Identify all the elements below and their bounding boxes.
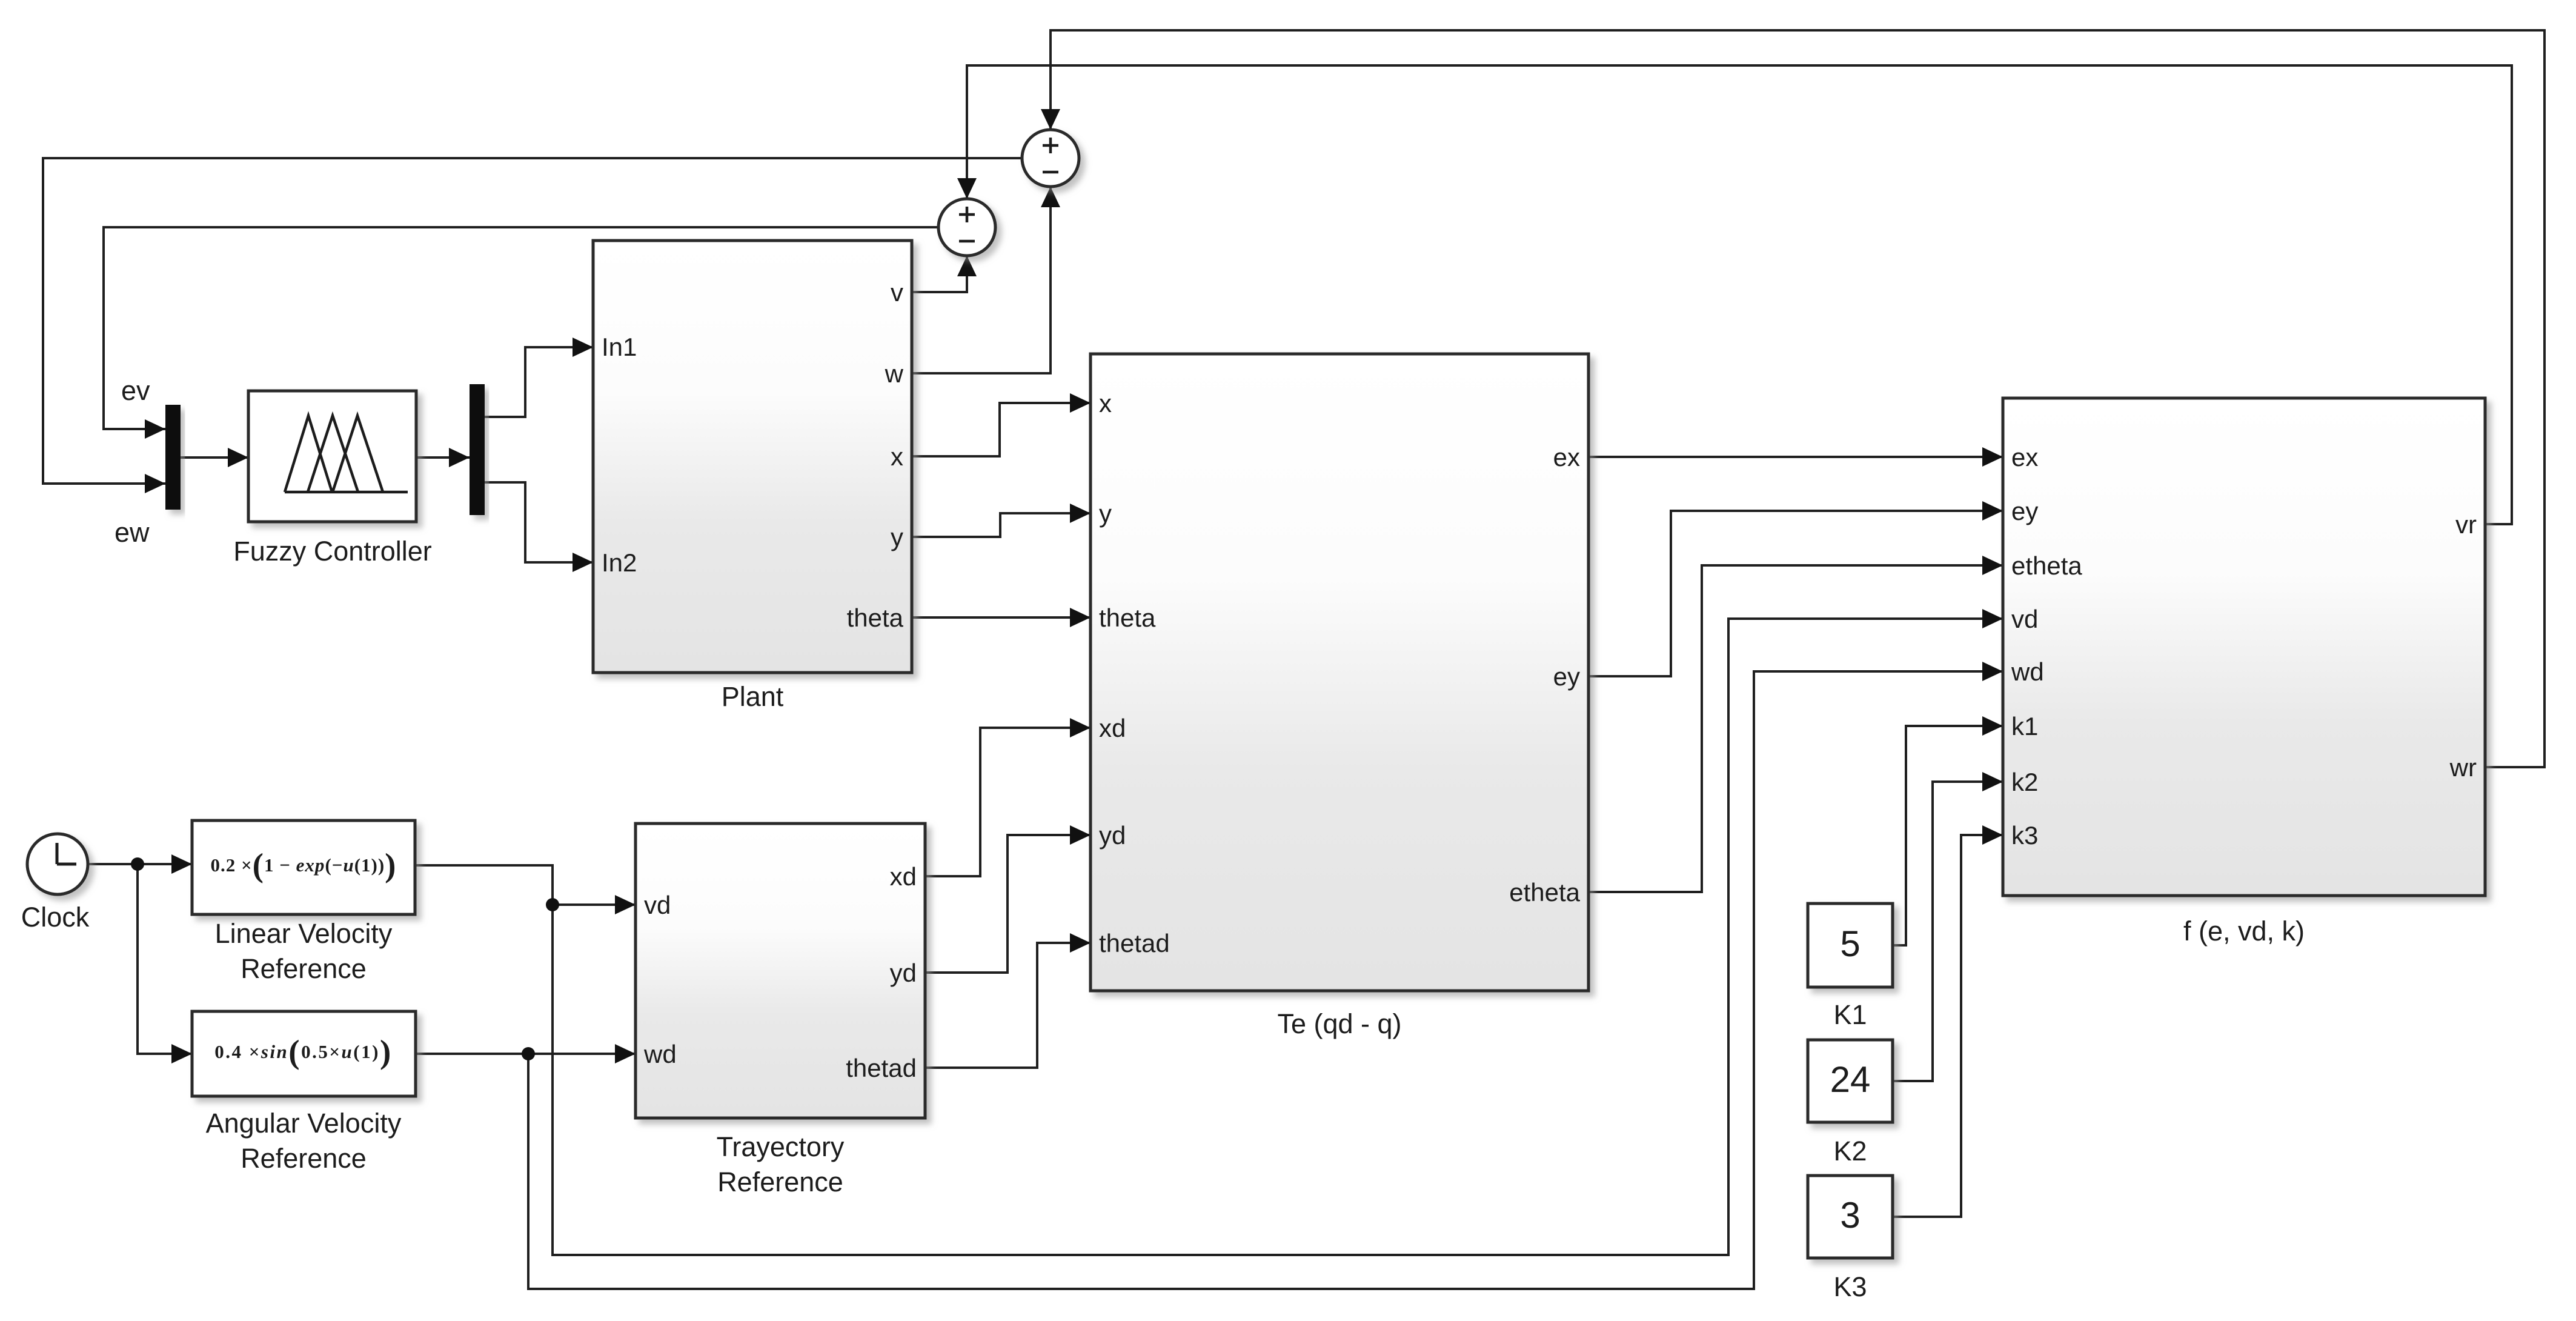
wire theta-to-Te [912, 616, 1090, 619]
constant K1 value 5 [1808, 903, 1893, 987]
wire demux-to-In2 [485, 482, 593, 562]
wire yd [925, 835, 1090, 973]
wire y-to-Te [912, 513, 1090, 537]
svg-text:vd: vd [2011, 605, 2038, 633]
wire angular-to-wd [416, 1053, 636, 1055]
wire linear-to-vd [415, 865, 636, 905]
wire K3-to-k3 [1893, 835, 2003, 1217]
wire fuzzy-to-demux [416, 456, 470, 459]
svg-text:k3: k3 [2011, 821, 2038, 850]
svg-text:yd: yd [890, 959, 917, 987]
svg-text:Reference: Reference [241, 1143, 367, 1174]
svg-text:w: w [885, 359, 904, 388]
svg-text:v: v [891, 278, 903, 307]
svg-text:y: y [1099, 499, 1112, 528]
wire etheta [1588, 565, 2003, 892]
svg-text:K2: K2 [1833, 1136, 1867, 1166]
svg-text:wd: wd [643, 1040, 677, 1068]
svg-text:xd: xd [1099, 714, 1126, 742]
svg-text:k1: k1 [2011, 712, 2038, 740]
svg-text:wd: wd [2011, 657, 2044, 686]
wire sum2-to-mux ew [43, 158, 1022, 484]
wire wd-branch-to-f [528, 671, 2003, 1289]
svg-text:Linear Velocity: Linear Velocity [215, 918, 393, 949]
wire v-to-sum1 [912, 256, 967, 292]
svg-text:ex: ex [2011, 443, 2038, 471]
wire mux-to-fuzzy [181, 456, 248, 459]
svg-text:Trayectory: Trayectory [717, 1131, 845, 1162]
wire demux-to-In1 [485, 347, 593, 417]
wire clock-to-angular [138, 864, 192, 1054]
svg-text:24: 24 [1830, 1059, 1871, 1100]
svg-text:Angular Velocity: Angular Velocity [206, 1108, 402, 1139]
wire sum1-to-mux ev [104, 227, 938, 429]
svg-text:Te (qd - q): Te (qd - q) [1277, 1008, 1401, 1039]
wire clock-to-linear [88, 863, 192, 865]
wire x-to-Te [912, 403, 1090, 456]
constant K3 value 3 [1808, 1176, 1893, 1258]
svg-text:K3: K3 [1833, 1271, 1867, 1302]
clock block [27, 834, 88, 894]
block Linear Velocity Reference [192, 820, 415, 914]
svg-text:thetad: thetad [846, 1054, 917, 1082]
svg-text:ey: ey [1553, 662, 1580, 691]
svg-text:x: x [1099, 389, 1112, 418]
svg-text:vd: vd [644, 891, 671, 919]
sum S2 [1022, 130, 1079, 187]
wire w-to-sum2 [912, 187, 1051, 373]
junction node vd-branch [546, 898, 559, 911]
svg-text:y: y [891, 523, 903, 551]
wire ey [1588, 511, 2003, 676]
wire K1-to-k1 [1893, 726, 2003, 945]
junction node wd-branch [522, 1047, 535, 1060]
wire thetad [925, 943, 1090, 1068]
svg-text:In2: In2 [602, 548, 637, 577]
svg-text:etheta: etheta [2011, 551, 2082, 580]
svg-text:theta: theta [1099, 604, 1156, 632]
svg-text:ex: ex [1553, 443, 1580, 471]
svg-text:Reference: Reference [717, 1166, 843, 1197]
wire wr-feedback [1051, 30, 2544, 767]
svg-text:ey: ey [2011, 497, 2038, 525]
svg-text:f (e, vd, k): f (e, vd, k) [2183, 916, 2305, 947]
junction node clock-branch [131, 857, 144, 871]
svg-text:etheta: etheta [1509, 878, 1580, 907]
sum S1 [938, 199, 995, 256]
svg-text:5: 5 [1840, 923, 1860, 964]
wire xd [925, 728, 1090, 876]
svg-text:k2: k2 [2011, 768, 2038, 796]
wire vr-feedback [967, 65, 2512, 524]
block Angular Velocity Reference [192, 1011, 416, 1096]
svg-text:theta: theta [847, 604, 904, 632]
wire vd-branch-to-f [553, 619, 2003, 1255]
wire ex [1588, 456, 2003, 458]
icon fuzzy membership functions [285, 416, 408, 492]
svg-text:xd: xd [890, 862, 917, 891]
svg-text:yd: yd [1099, 821, 1126, 850]
wire K2-to-k2 [1893, 782, 2003, 1081]
mux M1 [165, 405, 181, 510]
subsystem Te (qd - q) [1090, 354, 1588, 991]
svg-text:3: 3 [1840, 1195, 1860, 1236]
subsystem f (e, vd, k) [2003, 398, 2485, 896]
demux D1 [470, 384, 485, 515]
svg-text:In1: In1 [602, 333, 637, 361]
subsystem Trayectory Reference [636, 824, 925, 1118]
svg-text:ew: ew [115, 517, 150, 548]
svg-text:ev: ev [121, 375, 150, 406]
subsystem Plant [593, 241, 912, 673]
svg-text:K1: K1 [1833, 999, 1867, 1030]
svg-text:Clock: Clock [21, 902, 90, 933]
block Fuzzy Controller [248, 391, 416, 522]
svg-text:Reference: Reference [241, 953, 367, 984]
svg-text:x: x [891, 442, 903, 471]
svg-text:Plant: Plant [722, 681, 784, 712]
svg-text:vr: vr [2455, 510, 2477, 539]
svg-text:thetad: thetad [1099, 929, 1170, 957]
constant K2 value 24 [1808, 1040, 1893, 1122]
svg-text:Fuzzy Controller: Fuzzy Controller [233, 536, 432, 567]
svg-text:wr: wr [2449, 753, 2477, 782]
